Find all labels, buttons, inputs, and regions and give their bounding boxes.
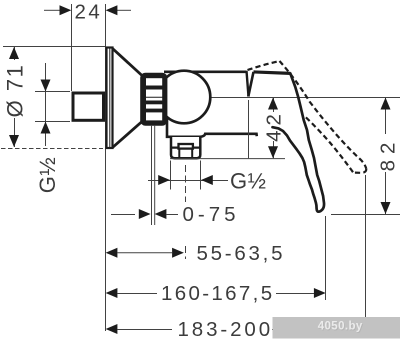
dashed handle inner edge (305, 116, 354, 172)
extension line bottom dashed (diameter 71) (1, 148, 103, 150)
arrow diameter 71 bottom (9, 135, 19, 147)
handle base top (254, 72, 291, 74)
svg-text:0-75: 0-75 (183, 203, 240, 226)
arrow 0-75 right-pointing (139, 209, 151, 219)
body end face (247, 71, 249, 97)
watermark bar (273, 317, 400, 339)
arrow 0-75 left-pointing (155, 209, 167, 219)
dim 24 arrow left (60, 5, 72, 15)
svg-text:Ø 71: Ø 71 (3, 64, 28, 118)
arrow 42 down (268, 146, 278, 158)
svg-text:82: 82 (377, 137, 400, 172)
dim line G half left (45, 63, 47, 146)
arrow 82 up (381, 98, 391, 110)
dim 24 arrow right (106, 5, 118, 15)
svg-text:183-200: 183-200 (178, 318, 274, 341)
arrow G half left up (41, 122, 51, 134)
extension line 42 vertical (248, 100, 250, 158)
cartridge housing circle (158, 71, 211, 124)
arrow G half bottom right-pointing (158, 175, 170, 185)
escutcheon cone bottom (113, 122, 143, 148)
extension line nipple bottom (35, 121, 70, 123)
wall flange (107, 48, 113, 149)
body top edge (164, 71, 247, 74)
dim line diameter 71 (14, 47, 16, 60)
arrow G half left down (41, 80, 51, 92)
dim G half bottom left line (148, 180, 228, 182)
svg-text:42: 42 (263, 109, 286, 142)
dim 160-167,5 (106, 288, 118, 298)
svg-text:160-167,5: 160-167,5 (161, 282, 274, 305)
dim 42 line (273, 98, 275, 113)
dim 24 line left (44, 9, 60, 11)
centerline horizontal (141, 97, 400, 99)
handle lever (273, 73, 325, 211)
extension line top (diameter 71) (3, 46, 106, 48)
dim 0-75 right line (166, 214, 178, 216)
outlet extension line right (200, 161, 202, 190)
arrow 82 down (381, 202, 391, 214)
extension line 82 bottom (331, 214, 400, 216)
svg-text:24: 24 (75, 0, 103, 23)
wall extension line (105, 4, 107, 331)
outlet centerline dashed (185, 165, 187, 202)
dashed handle outer edge (280, 61, 367, 169)
extension line 183 right (365, 175, 367, 329)
hex nut outlet (170, 137, 201, 158)
arrow G half bottom left-pointing (201, 175, 213, 185)
escutcheon cone top (113, 49, 143, 76)
svg-text:4050.by: 4050.by (318, 321, 363, 333)
arrow 42 up (268, 98, 278, 110)
handle base left edge (248, 72, 253, 97)
dashed handle rising edge (248, 61, 280, 70)
knurled ring (142, 74, 167, 125)
dim 82 line (385, 98, 387, 135)
extension line 160 right (325, 216, 327, 300)
nipple G half square (73, 93, 104, 120)
extension line nipple top (35, 91, 70, 93)
extension line 24 left (71, 4, 73, 91)
dim 183-200 (106, 324, 118, 334)
dim 0-75 left line (111, 214, 135, 216)
svg-text:G½: G½ (35, 157, 60, 193)
dashed handle tip cap (354, 169, 367, 173)
svg-text:55-63,5: 55-63,5 (197, 242, 286, 265)
arrow diameter 71 top (9, 47, 19, 59)
double extension lines 0-75 (151, 125, 153, 225)
extension line 42 bottom (170, 158, 285, 160)
dim 24 line right (117, 9, 131, 11)
dim 55-63,5 (106, 248, 118, 258)
svg-text:G½: G½ (230, 169, 266, 194)
outlet extension line left (170, 161, 172, 190)
body underside (167, 117, 257, 137)
